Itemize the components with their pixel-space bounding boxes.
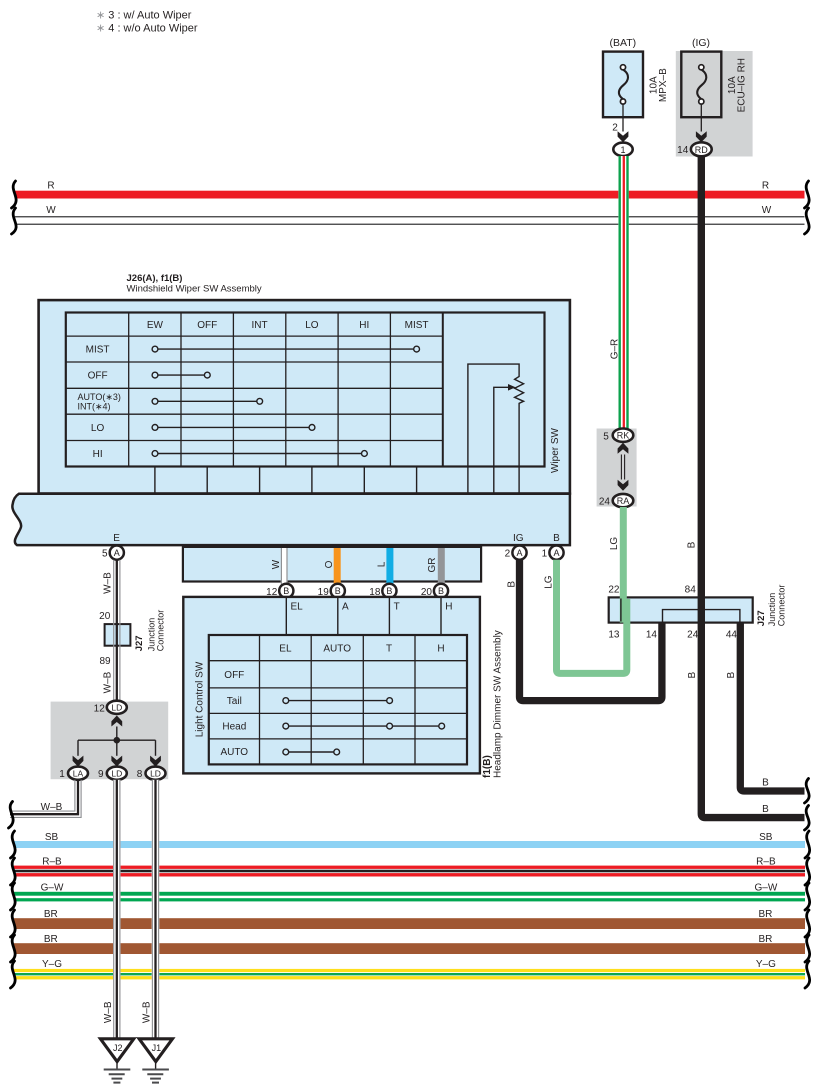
svg-text:84: 84 (685, 585, 697, 596)
svg-text:W–B: W–B (103, 572, 114, 594)
svg-text:Connector: Connector (155, 610, 165, 652)
svg-text:B: B (687, 541, 698, 548)
svg-text:89: 89 (99, 656, 111, 667)
svg-text:EW: EW (147, 320, 164, 331)
svg-text:R: R (762, 181, 769, 192)
svg-text:14: 14 (677, 145, 689, 156)
svg-text:B: B (687, 672, 698, 679)
svg-text:∗ 4 : w/o Auto Wiper: ∗ 4 : w/o Auto Wiper (96, 23, 198, 35)
svg-text:OFF: OFF (224, 670, 244, 681)
svg-text:GR: GR (427, 558, 438, 573)
svg-text:G–W: G–W (755, 883, 778, 894)
svg-text:2: 2 (505, 549, 511, 560)
svg-text:B: B (762, 778, 769, 789)
svg-text:1: 1 (620, 145, 625, 155)
svg-text:MPX–B: MPX–B (658, 68, 669, 102)
svg-text:AUTO: AUTO (323, 643, 351, 654)
svg-text:W–B: W–B (103, 1001, 114, 1023)
svg-text:E: E (113, 533, 120, 544)
svg-text:HI: HI (93, 449, 103, 460)
svg-text:5: 5 (603, 431, 609, 442)
svg-text:B: B (438, 586, 444, 596)
svg-text:A: A (516, 548, 522, 558)
svg-text:13: 13 (608, 629, 620, 640)
svg-text:ECU–IG RH: ECU–IG RH (736, 58, 747, 112)
svg-text:5: 5 (102, 549, 108, 560)
svg-text:Head: Head (222, 722, 246, 733)
svg-text:12: 12 (94, 703, 106, 714)
svg-text:BR: BR (758, 934, 772, 945)
svg-text:G–W: G–W (41, 883, 64, 894)
svg-text:OFF: OFF (197, 320, 217, 331)
svg-text:B: B (553, 533, 560, 544)
svg-text:MIST: MIST (86, 345, 110, 356)
svg-text:G–R: G–R (609, 339, 620, 360)
svg-text:Y–G: Y–G (42, 959, 62, 970)
svg-text:W–B: W–B (103, 671, 114, 693)
svg-text:Light Control SW: Light Control SW (194, 661, 205, 737)
svg-text:LO: LO (305, 320, 319, 331)
svg-text:OFF: OFF (88, 371, 108, 382)
svg-text:RK: RK (617, 431, 630, 441)
svg-text:H: H (445, 601, 452, 612)
svg-text:H: H (437, 643, 444, 654)
svg-text:24: 24 (687, 629, 699, 640)
svg-text:SB: SB (45, 832, 59, 843)
svg-text:LD: LD (111, 703, 122, 713)
svg-text:W: W (46, 205, 56, 216)
svg-text:AUTO: AUTO (220, 747, 248, 758)
svg-text:Connector: Connector (777, 585, 787, 627)
svg-text:B: B (762, 804, 769, 815)
svg-text:W–B: W–B (142, 1001, 153, 1023)
svg-text:W–B: W–B (41, 802, 63, 813)
svg-text:L: L (376, 561, 387, 567)
svg-text:W: W (271, 559, 282, 569)
svg-text:LD: LD (150, 769, 161, 779)
svg-text:LG: LG (544, 575, 555, 589)
svg-text:f1(B): f1(B) (482, 755, 493, 778)
svg-text:T: T (394, 601, 400, 612)
svg-text:J27: J27 (756, 610, 767, 626)
svg-text:BR: BR (44, 934, 58, 945)
svg-text:EL: EL (279, 643, 292, 654)
svg-text:LG: LG (609, 537, 620, 551)
svg-text:LO: LO (91, 423, 105, 434)
svg-text:14: 14 (646, 629, 658, 640)
svg-text:B: B (506, 581, 517, 588)
svg-text:(BAT): (BAT) (609, 37, 636, 49)
svg-text:W: W (762, 205, 772, 216)
svg-text:J26(A), f1(B): J26(A), f1(B) (127, 273, 183, 284)
svg-text:RA: RA (617, 496, 630, 506)
svg-text:(IG): (IG) (692, 37, 710, 49)
svg-text:44: 44 (726, 629, 738, 640)
svg-text:T: T (386, 643, 392, 654)
svg-text:1: 1 (59, 769, 65, 780)
svg-text:9: 9 (98, 769, 104, 780)
svg-text:Headlamp Dimmer SW Assembly: Headlamp Dimmer SW Assembly (493, 630, 504, 778)
svg-text:Tail: Tail (227, 696, 242, 707)
svg-text:B: B (726, 672, 737, 679)
svg-text:LD: LD (111, 769, 122, 779)
svg-text:O: O (324, 560, 335, 568)
svg-text:8: 8 (137, 769, 143, 780)
svg-text:SB: SB (759, 832, 773, 843)
svg-text:R–B: R–B (42, 856, 62, 867)
svg-text:A: A (114, 548, 120, 558)
svg-text:RD: RD (695, 145, 708, 155)
svg-text:24: 24 (599, 496, 611, 507)
svg-text:20: 20 (99, 611, 111, 622)
svg-text:R: R (47, 181, 54, 192)
svg-text:INT: INT (252, 320, 268, 331)
svg-text:22: 22 (608, 585, 620, 596)
svg-text:MIST: MIST (405, 320, 429, 331)
svg-text:B: B (335, 586, 341, 596)
svg-text:B: B (386, 586, 392, 596)
svg-text:Windshield Wiper SW Assembly: Windshield Wiper SW Assembly (127, 284, 262, 295)
svg-text:J2: J2 (113, 1043, 123, 1053)
svg-text:2: 2 (612, 122, 618, 133)
svg-text:HI: HI (359, 320, 369, 331)
svg-text:∗ 3 : w/ Auto Wiper: ∗ 3 : w/ Auto Wiper (96, 10, 192, 22)
svg-text:B: B (283, 586, 289, 596)
svg-text:EL: EL (291, 601, 304, 612)
svg-text:J1: J1 (152, 1043, 162, 1053)
svg-text:INT(∗4): INT(∗4) (78, 401, 111, 411)
svg-text:J27: J27 (134, 635, 145, 651)
svg-text:1: 1 (542, 549, 548, 560)
svg-text:LA: LA (73, 769, 84, 779)
svg-text:BR: BR (758, 909, 772, 920)
svg-text:IG: IG (513, 533, 524, 544)
svg-text:A: A (553, 548, 559, 558)
svg-text:Y–G: Y–G (756, 959, 776, 970)
svg-text:A: A (342, 601, 349, 612)
svg-text:BR: BR (44, 909, 58, 920)
svg-text:R–B: R–B (756, 856, 776, 867)
svg-text:Wiper SW: Wiper SW (550, 427, 561, 473)
